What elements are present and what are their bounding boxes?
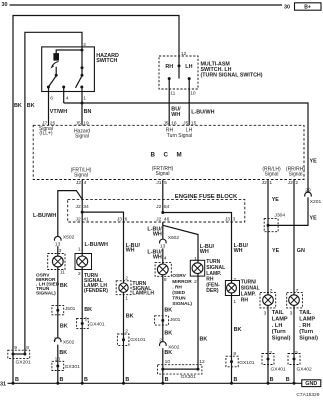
svg-text:J5: J5 — [76, 121, 81, 127]
svg-text:LAMP.: LAMP. — [241, 292, 257, 298]
svg-text:2: 2 — [194, 279, 197, 285]
turn signal lamp RH fender box — [190, 260, 204, 276]
svg-text:X602: X602 — [168, 235, 180, 241]
turn signal lamp LH — [119, 283, 128, 292]
svg-text:YE: YE — [310, 215, 318, 221]
ground GX401 right junction — [267, 358, 270, 361]
GND terminal box — [302, 380, 321, 387]
wire fender LH ground — [81, 270, 83, 384]
svg-text:34: 34 — [83, 204, 89, 210]
lamp LH wire through — [123, 281, 125, 295]
svg-text:J2: J2 — [288, 180, 293, 186]
svg-text:2: 2 — [295, 180, 298, 186]
svg-text:1: 1 — [78, 247, 81, 253]
hazard illumination lamp (filled) — [54, 54, 59, 61]
wire X502 to mirror LH — [57, 246, 59, 253]
connector X502 bump (top) — [54, 236, 61, 240]
svg-text:L-BU/WH: L-BU/WH — [85, 242, 108, 248]
svg-text:RH: RH — [165, 64, 173, 70]
bus junction (GX201) — [12, 382, 15, 385]
splice J601 box — [155, 316, 169, 325]
bus junction (mirror RH) — [161, 382, 164, 385]
ground GX201 box — [8, 350, 30, 358]
svg-text:. RH: . RH — [172, 284, 182, 290]
wire lamp RH ground — [231, 296, 233, 384]
wire J2 46 down — [162, 222, 164, 239]
svg-text:GN: GN — [297, 248, 305, 254]
svg-text:2: 2 — [78, 271, 81, 277]
svg-text:J2: J2 — [76, 204, 81, 210]
svg-text:X201: X201 — [310, 199, 322, 205]
splice J304 junction — [267, 224, 270, 227]
svg-text:BK: BK — [27, 103, 35, 109]
wire mirror LH ground BK upper — [57, 270, 59, 338]
svg-text:3: 3 — [264, 311, 267, 317]
wire X201 down to J304 link — [268, 197, 308, 225]
svg-text:4: 4 — [164, 255, 167, 261]
svg-text:B: B — [165, 377, 169, 383]
wire mirror RH ground lower — [162, 348, 164, 383]
wire hazard pin2 feed / BK ground run (left inner) — [25, 32, 82, 354]
svg-text:VT/WH: VT/WH — [50, 109, 67, 115]
svg-text:5: 5 — [85, 317, 88, 323]
osrv mirror RH lamp — [157, 264, 168, 275]
svg-text:7: 7 — [296, 288, 299, 294]
svg-text:J1: J1 — [156, 180, 161, 186]
osrv mirror LH lamp wire through — [57, 254, 59, 270]
svg-text:3: 3 — [59, 248, 62, 254]
svg-text:J2: J2 — [76, 217, 81, 223]
tail lamp LH — [263, 295, 274, 306]
svg-text:J2: J2 — [262, 180, 267, 186]
svg-text:10: 10 — [190, 91, 196, 97]
svg-text:LAMP: LAMP — [299, 316, 315, 322]
svg-text:BK: BK — [60, 324, 68, 330]
osrv mirror LH lamp box — [48, 254, 65, 270]
svg-text:11: 11 — [60, 270, 65, 276]
svg-text:B: B — [234, 377, 238, 383]
svg-text:15: 15 — [191, 121, 197, 127]
svg-text:11: 11 — [170, 91, 175, 97]
svg-text:LAMP.LH: LAMP.LH — [132, 291, 154, 297]
svg-text:4: 4 — [66, 96, 69, 102]
wire hazard pin6 VT/WH to BCM J7 25 — [48, 87, 50, 125]
fuse internal junction right — [161, 211, 164, 214]
svg-text:WH: WH — [153, 254, 162, 260]
branch wire to fender RH — [163, 225, 198, 260]
bus junction (lamp RH) — [230, 382, 233, 385]
svg-text:Turn Signal: Turn Signal — [167, 133, 192, 139]
svg-text:6: 6 — [125, 217, 128, 223]
splice J501 junction — [56, 309, 59, 312]
svg-text:(ILL+): (ILL+) — [39, 131, 53, 137]
ground GX301 left junction — [56, 365, 59, 368]
svg-text:(FENDER): (FENDER) — [84, 288, 108, 294]
ground GX101 left box — [117, 334, 128, 345]
svg-text:OSRV: OSRV — [172, 273, 186, 279]
ground GX402 junction — [293, 358, 296, 361]
svg-text:TAIL: TAIL — [299, 310, 312, 316]
hazard pin 6 contact — [47, 86, 50, 89]
svg-text:YE: YE — [272, 197, 280, 203]
svg-text:DER): DER) — [206, 288, 219, 294]
long feed wire to X201 and J304 — [64, 103, 308, 192]
wire mirror LH ground BK lower — [57, 345, 59, 384]
svg-text:3: 3 — [290, 311, 293, 317]
svg-text:TAIL: TAIL — [272, 310, 285, 316]
osrv mirror LH lamp — [52, 256, 63, 267]
BCM box — [33, 125, 304, 179]
wire multi-asm pin12 feed / BK ground run (left outer) — [13, 16, 179, 384]
svg-text:B C M: B C M — [151, 152, 186, 159]
wire mirror RH ground upper — [162, 276, 164, 341]
turn signal lamp RH fender — [192, 263, 203, 274]
svg-text:. RH: . RH — [299, 323, 310, 329]
hazard switch blade left (closed) — [48, 76, 56, 87]
connector X602 bump (bottom) — [160, 342, 167, 346]
svg-text:12: 12 — [199, 359, 205, 365]
junction hazard BN / feed — [81, 102, 84, 105]
wire J3 3 to turn signal lamp RH — [231, 222, 233, 281]
wire multi-asm pin11 to BCM J5 16 — [168, 79, 170, 126]
wire X602 to mirror RH — [162, 248, 164, 262]
svg-text:Signal: Signal — [289, 171, 303, 177]
wire hazard pin1 BN to BCM J5 19 — [81, 87, 83, 125]
svg-text:SWITCH: SWITCH — [96, 58, 117, 64]
engine fuse block box — [68, 199, 245, 222]
hazard switch box — [42, 47, 95, 92]
svg-text:GND: GND — [305, 381, 317, 387]
hazard lamp arrow — [52, 62, 59, 67]
svg-text:BK: BK — [59, 350, 67, 356]
svg-text:Signal): Signal) — [299, 336, 318, 342]
ground GX301 junction pin10 — [161, 368, 164, 371]
svg-text:BK: BK — [164, 307, 172, 313]
svg-text:LH: LH — [185, 64, 192, 70]
svg-text:4: 4 — [84, 180, 87, 186]
svg-text:Signal: Signal — [265, 171, 279, 177]
svg-text:YE: YE — [310, 158, 318, 164]
svg-text:J3: J3 — [117, 217, 122, 223]
svg-text:30: 30 — [2, 2, 8, 8]
branch wire to X502 (L-BU/WH) — [58, 191, 82, 237]
svg-text:C7A15329: C7A15329 — [296, 392, 319, 398]
svg-text:Signal: Signal — [156, 171, 170, 177]
tail lamp RH — [289, 295, 300, 306]
ground GX201 junction 8 — [23, 353, 26, 356]
splice J601 junction — [161, 319, 164, 322]
svg-text:5: 5 — [164, 180, 167, 186]
svg-text:1: 1 — [233, 299, 236, 305]
B+ terminal box — [295, 3, 322, 10]
svg-text:J601: J601 — [170, 317, 181, 323]
lamp RH wire through — [231, 281, 233, 296]
svg-text:WH: WH — [126, 247, 135, 253]
svg-text:B: B — [60, 377, 64, 383]
hazard switch blade right (open) — [76, 76, 82, 88]
svg-text:L-BU/WH: L-BU/WH — [191, 110, 214, 116]
svg-text:BK: BK — [164, 330, 172, 336]
wire tail LH ground — [267, 308, 269, 383]
svg-text:J2: J2 — [156, 204, 161, 210]
svg-text:(Turn: (Turn — [299, 329, 313, 335]
svg-text:1: 1 — [269, 180, 272, 186]
svg-text:SIGNAL): SIGNAL) — [36, 291, 56, 297]
ground GX301 wide box — [158, 365, 202, 374]
fender LH lamp wire through — [81, 254, 83, 270]
svg-text:46: 46 — [164, 217, 170, 223]
splice J304 box — [264, 219, 278, 232]
svg-text:B: B — [286, 377, 290, 383]
wire BCM J2 4 into fuse block — [81, 180, 83, 213]
connector X201 bump — [305, 192, 312, 196]
connector X602 bump (top) — [160, 239, 167, 243]
svg-text:ENGINE FUSE BLOCK: ENGINE FUSE BLOCK — [175, 194, 238, 200]
svg-text:J5: J5 — [183, 121, 188, 127]
hazard pin 1 contact — [80, 86, 83, 89]
wire tail RH ground — [293, 308, 295, 383]
bus junction (lamp LH) — [122, 382, 125, 385]
bus 30 wire — [10, 4, 283, 6]
svg-text:GX301: GX301 — [181, 374, 197, 380]
wire J2 41 to fender lamp LH — [81, 212, 83, 253]
fuse link J2 54 to J3 3 — [163, 213, 232, 223]
svg-text:J2: J2 — [156, 217, 161, 223]
svg-text:GX101: GX101 — [130, 337, 146, 343]
svg-text:GX201: GX201 — [16, 360, 32, 366]
wire BCM J1 5 into fuse block — [162, 180, 164, 213]
svg-text:WH: WH — [153, 231, 162, 237]
svg-text:8: 8 — [164, 277, 167, 283]
ground GX301 left box — [52, 361, 64, 370]
bus junction (tail LH) — [267, 382, 270, 385]
svg-text:WH: WH — [234, 248, 243, 254]
svg-text:BK: BK — [200, 337, 208, 343]
svg-text:MIRROR: MIRROR — [172, 279, 192, 285]
svg-text:GX101: GX101 — [239, 360, 255, 366]
svg-text:GX401: GX401 — [89, 322, 105, 328]
bus junction (fender LH) — [81, 382, 84, 385]
ground GX401 left junction — [81, 322, 84, 325]
svg-text:12: 12 — [181, 51, 187, 57]
multi-asm RH contact — [168, 77, 171, 80]
tail lamp LH wire through — [267, 292, 269, 308]
svg-text:1: 1 — [125, 295, 128, 301]
svg-text:2: 2 — [125, 328, 128, 334]
fuse internal junction left — [81, 211, 84, 214]
bus junction (tail RH) — [293, 382, 296, 385]
svg-text:19: 19 — [83, 121, 89, 127]
multi-asm internal stem — [178, 66, 180, 79]
svg-text:6: 6 — [50, 96, 53, 102]
turn signal lamp LH box — [116, 281, 131, 295]
svg-text:5: 5 — [295, 350, 298, 356]
svg-text:2: 2 — [83, 42, 86, 48]
svg-text:16: 16 — [171, 121, 177, 127]
svg-text:YE: YE — [272, 248, 280, 254]
multi-asm LH contact — [188, 77, 191, 80]
svg-text:SIGNAL: SIGNAL — [241, 285, 260, 291]
multi-asm switch box — [159, 56, 198, 89]
tail lamp RH wire through — [293, 292, 295, 308]
hazard lamp wire to switch — [55, 67, 57, 76]
svg-text:TURN/: TURN/ — [241, 279, 257, 285]
connector X502 bump (bottom) — [54, 338, 61, 342]
svg-text:WH: WH — [171, 112, 180, 118]
tail lamp RH box — [287, 292, 303, 308]
ground GX201 junction 9 — [12, 353, 15, 356]
svg-text:. LH: . LH — [272, 323, 283, 329]
svg-text:J5: J5 — [163, 121, 168, 127]
svg-text:Signal): Signal) — [272, 336, 291, 342]
svg-text:54: 54 — [164, 204, 170, 210]
fuse link J2 34 to J3 6 — [82, 212, 123, 222]
ground GX101 right box — [226, 356, 238, 367]
osrv mirror RH lamp wire through — [162, 263, 164, 277]
svg-text:7: 7 — [270, 288, 273, 294]
hazard internal: top node and lamp branch — [56, 50, 82, 54]
wire BCM J2 2 to tail lamp RH — [293, 180, 295, 293]
ground GX401 right box — [262, 354, 274, 365]
turn signal lamp LH fender — [77, 256, 88, 267]
wire hazard pin4 to long feed — [63, 87, 65, 103]
bus 31 wire — [8, 382, 302, 384]
turn signal lamp LH fender box — [75, 254, 92, 270]
svg-text:X502: X502 — [63, 234, 75, 240]
svg-text:(SIED: (SIED — [172, 290, 185, 296]
svg-text:RH: RH — [241, 298, 249, 304]
svg-text:BK: BK — [164, 350, 172, 356]
ground GX101 right junction — [230, 360, 233, 363]
hazard internal right feed — [81, 50, 83, 75]
svg-text:L-BU/WH: L-BU/WH — [33, 213, 56, 219]
svg-text:41: 41 — [83, 217, 89, 223]
turn signal lamp RH box — [225, 281, 239, 296]
svg-text:SIGNAL): SIGNAL) — [172, 301, 192, 307]
svg-text:BK: BK — [126, 314, 134, 320]
fender RH lamp wire through — [197, 260, 199, 276]
svg-text:B: B — [270, 377, 274, 383]
bus junction (mirror LH) — [56, 382, 59, 385]
wire lamp LH ground — [123, 295, 125, 384]
svg-text:TRUN: TRUN — [172, 296, 186, 302]
svg-text:GX301: GX301 — [65, 364, 81, 370]
svg-text:Signal: Signal — [75, 133, 89, 139]
svg-text:BK: BK — [84, 307, 92, 313]
svg-text:WH: WH — [200, 249, 209, 255]
svg-text:B+: B+ — [304, 5, 311, 11]
osrv mirror RH lamp box — [155, 263, 171, 277]
ground GX101 left junction — [122, 338, 125, 341]
svg-text:J2: J2 — [76, 180, 81, 186]
svg-text:BK: BK — [14, 103, 22, 109]
svg-text:B: B — [15, 377, 19, 383]
splice J501 box — [52, 305, 64, 314]
svg-text:GX402: GX402 — [297, 366, 313, 372]
wire BCM J2 1 to tail lamp LH — [267, 180, 269, 293]
tail lamp LH box — [260, 292, 276, 308]
svg-text:Signal: Signal — [74, 173, 88, 179]
svg-text:(TURN SIGNAL SWITCH): (TURN SIGNAL SWITCH) — [201, 72, 263, 78]
svg-text:J501: J501 — [65, 306, 76, 312]
multi-asm internal node — [178, 64, 181, 67]
ground GX301 internal link — [163, 368, 198, 370]
ground GX402 box — [288, 354, 300, 365]
hazard pin 4 contact — [62, 86, 65, 89]
svg-text:GX401: GX401 — [271, 366, 287, 372]
ground GX301 junction pin12 — [197, 368, 200, 371]
svg-text:LAMP: LAMP — [272, 316, 288, 322]
svg-text:BK: BK — [60, 283, 68, 289]
svg-text:1: 1 — [194, 256, 197, 262]
wire J3 6 to turn signal lamp LH — [123, 222, 125, 281]
svg-text:BK: BK — [234, 327, 242, 333]
svg-text:10: 10 — [165, 359, 171, 365]
svg-text:31: 31 — [0, 382, 6, 388]
svg-text:30: 30 — [284, 4, 290, 10]
wire multi-asm pin10 to BCM J5 15 — [188, 79, 190, 126]
svg-text:(Turn: (Turn — [272, 329, 286, 335]
turn signal lamp RH — [227, 283, 237, 293]
ground GX201 internal link — [13, 353, 25, 355]
svg-text:X502: X502 — [63, 339, 75, 345]
svg-text:J3: J3 — [225, 217, 230, 223]
ground GX401 left box — [77, 319, 89, 329]
svg-text:3: 3 — [233, 217, 236, 223]
svg-text:2: 2 — [269, 350, 272, 356]
svg-text:1: 1 — [83, 96, 86, 102]
svg-text:B: B — [84, 377, 88, 383]
svg-text:J304: J304 — [275, 212, 286, 218]
svg-text:BN: BN — [84, 109, 92, 115]
svg-text:B: B — [125, 377, 129, 383]
wire fender RH ground — [197, 276, 199, 369]
